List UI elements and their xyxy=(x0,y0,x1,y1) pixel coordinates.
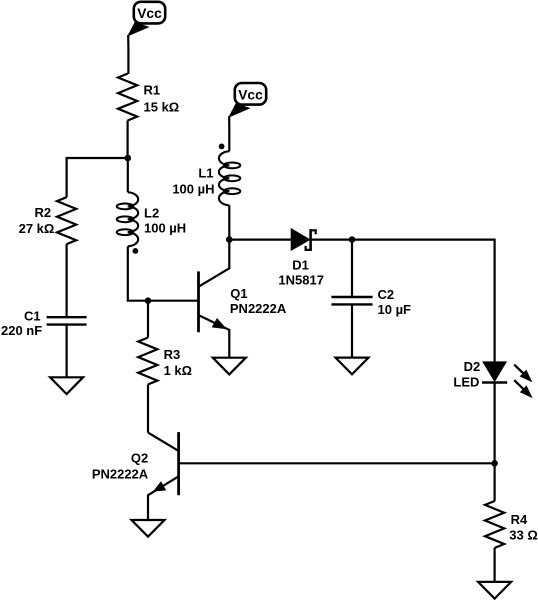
svg-text:R4: R4 xyxy=(511,512,528,527)
svg-text:D1: D1 xyxy=(292,258,309,273)
inductor L1 xyxy=(219,151,240,205)
ground (Q1 emitter) xyxy=(213,358,246,375)
wire Vcc flag to L1 top xyxy=(228,116,230,151)
junction node C (L1 / Q1 collector / D1) xyxy=(226,236,233,243)
wire D1 cathode to C2 node and right corner xyxy=(312,240,495,362)
polarity dot L1 xyxy=(219,144,225,150)
svg-text:L2: L2 xyxy=(144,206,159,221)
wire LED cathode to node E xyxy=(494,383,496,464)
wire C1 to ground xyxy=(65,325,67,378)
svg-text:Q2: Q2 xyxy=(131,450,148,465)
resistor R3 xyxy=(138,338,157,385)
transistor Q1 base bar xyxy=(197,271,200,332)
label L2 value 100 uH xyxy=(144,206,186,236)
label R3 value 1 kOhm xyxy=(164,347,193,378)
inductor L2 xyxy=(117,192,138,246)
ground (R4) xyxy=(478,582,511,599)
LED D2 triangle xyxy=(483,362,506,381)
wire node B down to R3 xyxy=(147,301,149,338)
svg-text:PN2222A: PN2222A xyxy=(92,466,149,481)
LED D2 cathode bar xyxy=(482,381,507,384)
wire Q2 base to node E xyxy=(179,462,495,464)
wire L2 bottom to node B xyxy=(128,246,198,300)
transistor Q1 collector xyxy=(199,240,229,287)
resistor R2 xyxy=(57,197,76,244)
svg-text:1N5817: 1N5817 xyxy=(278,273,324,288)
label D2 value LED xyxy=(453,359,480,390)
svg-text:Vcc: Vcc xyxy=(238,87,263,102)
svg-text:100 µH: 100 µH xyxy=(144,221,186,236)
label Q1 value PN2222A xyxy=(230,286,287,316)
wire node A to L2 top xyxy=(127,158,129,192)
svg-text:100 µH: 100 µH xyxy=(172,182,214,197)
svg-text:D2: D2 xyxy=(464,359,481,374)
svg-text:L1: L1 xyxy=(198,166,213,181)
svg-text:C2: C2 xyxy=(378,287,395,302)
svg-text:PN2222A: PN2222A xyxy=(230,301,287,316)
transistor Q2 collector xyxy=(148,433,178,451)
svg-text:15 kΩ: 15 kΩ xyxy=(144,100,180,115)
svg-text:33 Ω: 33 Ω xyxy=(509,528,538,543)
label Q2 value PN2222A xyxy=(92,450,149,481)
wire node E down to R4 xyxy=(494,463,496,501)
transistor Q1 emitter with arrow xyxy=(199,315,229,357)
label C1 value 220 nF xyxy=(1,309,42,338)
svg-text:10 µF: 10 µF xyxy=(378,302,412,317)
wire node D down to C2 xyxy=(351,240,353,297)
wire node A horizontal to R2 xyxy=(67,158,128,197)
junction node E (LED / Q2 base / R4) xyxy=(491,460,498,467)
label R4 value 33 Ohm xyxy=(509,512,538,543)
wire R1 bottom to node A xyxy=(126,121,128,159)
wire Vcc flag to R1 top xyxy=(127,35,129,74)
wire C2 to ground xyxy=(351,304,353,357)
wire R2 bottom to C1 xyxy=(65,244,67,317)
diode D1 schottky triangle xyxy=(291,229,309,250)
svg-text:R2: R2 xyxy=(35,205,52,220)
power flag Vcc (net Vcc, feeds R1) xyxy=(128,2,165,36)
resistor R1 xyxy=(118,74,137,121)
transistor Q2 base bar xyxy=(177,432,180,495)
svg-text:Q1: Q1 xyxy=(230,286,247,301)
label R2 value 27 kOhm xyxy=(19,205,55,236)
svg-text:C1: C1 xyxy=(24,309,41,324)
svg-text:LED: LED xyxy=(453,375,479,390)
diode D1 schottky cathode bar xyxy=(306,229,316,251)
wire R4 bottom to ground xyxy=(494,548,496,582)
power flag Vcc (net Vcc, feeds L1) xyxy=(229,83,266,117)
label D1 value 1N5817 xyxy=(278,258,324,288)
svg-text:27 kΩ: 27 kΩ xyxy=(19,221,55,236)
wire L1 bottom to node C xyxy=(228,205,230,239)
label C2 value 10 uF xyxy=(378,287,412,317)
resistor R4 xyxy=(485,501,504,548)
svg-text:Vcc: Vcc xyxy=(137,6,162,21)
junction node B (base Q1 / R3) xyxy=(145,297,152,304)
capacitor C2 xyxy=(331,297,372,304)
label L1 value 100 uH xyxy=(172,166,214,197)
transistor Q2 emitter with arrow xyxy=(148,477,178,520)
svg-text:1 kΩ: 1 kΩ xyxy=(164,363,193,378)
junction node A xyxy=(125,155,132,162)
svg-text:220 nF: 220 nF xyxy=(1,323,42,338)
polarity dot L2 xyxy=(133,248,139,254)
ground (C1) xyxy=(50,377,83,394)
LED D2 emission arrows xyxy=(514,365,532,399)
junction node D (C2 tap) xyxy=(349,236,356,243)
ground (C2) xyxy=(336,358,369,375)
wire R3 bottom to Q2 collector xyxy=(147,385,149,433)
capacitor C1 xyxy=(47,317,87,324)
svg-text:R3: R3 xyxy=(164,347,181,362)
svg-text:R1: R1 xyxy=(144,83,161,98)
label R1 value 15 kOhm xyxy=(144,83,180,115)
ground (Q2 emitter) xyxy=(132,520,165,537)
wire node C to D1 anode xyxy=(229,239,291,241)
